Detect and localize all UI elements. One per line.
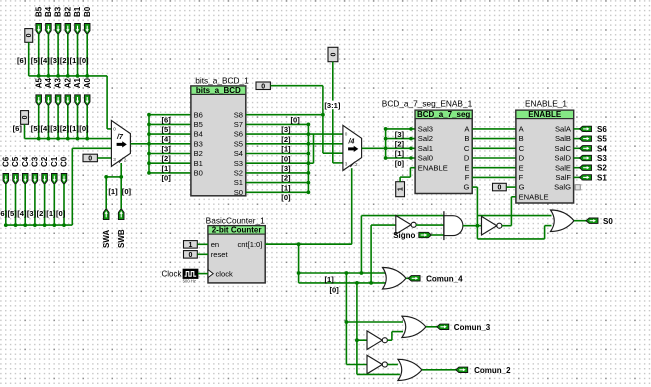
constant 0 (reset) xyxy=(184,251,198,259)
svg-text:/4: /4 xyxy=(348,139,355,146)
svg-text:A5: A5 xyxy=(34,78,43,89)
svg-text:2: 2 xyxy=(124,158,127,163)
wire B5 vertical xyxy=(38,34,40,76)
svg-text:B4: B4 xyxy=(44,6,53,17)
svg-text:[0]: [0] xyxy=(281,154,291,163)
svg-text:[3]: [3] xyxy=(50,56,60,65)
wire A bus horizontal xyxy=(25,138,112,140)
svg-text:B4: B4 xyxy=(194,130,203,139)
svg-text:B3: B3 xyxy=(54,6,63,17)
svg-text:G: G xyxy=(463,183,469,192)
wire select join xyxy=(106,176,121,178)
or gate O4 (Comun_2) xyxy=(398,359,422,380)
svg-text:0: 0 xyxy=(26,33,33,37)
wire A0 vertical xyxy=(86,105,88,138)
wire B0 vertical xyxy=(86,34,88,76)
wire S2 xyxy=(246,172,309,174)
wire S4 xyxy=(246,153,309,155)
output pin Comun_2 xyxy=(456,367,468,372)
wire const0 right xyxy=(270,85,323,87)
wire segment D xyxy=(472,157,516,159)
wire B1 vertical xyxy=(77,34,79,76)
svg-text:B3: B3 xyxy=(194,139,203,148)
svg-text:[5]: [5] xyxy=(31,124,41,133)
output pin S3 xyxy=(574,157,582,159)
svg-text:B: B xyxy=(464,134,469,143)
constant 0 vertical (mux2 in3 source) xyxy=(328,47,338,61)
svg-text:S1: S1 xyxy=(597,173,607,182)
junctions B bus xyxy=(37,74,41,78)
clock input triangle xyxy=(208,270,213,278)
wire top const down xyxy=(332,62,334,163)
svg-text:S2: S2 xyxy=(597,164,607,173)
svg-text:C0: C0 xyxy=(60,156,69,167)
wire SWB up xyxy=(120,177,122,209)
wire tap to AND top xyxy=(360,216,362,273)
svg-text:bits_a_BCD_1: bits_a_BCD_1 xyxy=(195,76,249,86)
wire Comun3 out xyxy=(426,326,438,328)
svg-text:[2]: [2] xyxy=(281,174,291,183)
wire C4 vertical xyxy=(24,184,26,225)
junction SWA xyxy=(104,175,108,179)
wire tap to Comun3 OR / NOT2 xyxy=(345,273,347,365)
wire C5 vertical xyxy=(15,184,17,225)
svg-text:[6]: [6] xyxy=(162,115,172,124)
svg-text:SalB: SalB xyxy=(555,134,571,143)
svg-text:SalF: SalF xyxy=(555,173,571,182)
svg-text:[3]: [3] xyxy=(27,209,37,218)
constant 0 (S8 extra bit) xyxy=(256,82,270,90)
wire Signo pin to AND xyxy=(432,234,444,236)
wire const to mux1 in3 xyxy=(97,157,112,159)
input pin SWB xyxy=(118,209,124,220)
svg-text:[1]: [1] xyxy=(70,56,80,65)
junction cnt xyxy=(297,242,301,246)
svg-text:ENABLE: ENABLE xyxy=(519,192,549,201)
wire constA to A bus xyxy=(24,124,26,138)
svg-text:[3]: [3] xyxy=(281,125,291,134)
wire reset xyxy=(197,253,208,255)
svg-text:0: 0 xyxy=(330,52,337,56)
wire tap to NOT3 / OR2 bottom xyxy=(356,283,358,375)
wire A1 vertical xyxy=(77,105,79,138)
svg-text:S3: S3 xyxy=(234,159,243,168)
wire Comun4 out xyxy=(406,277,409,279)
svg-text:[2]: [2] xyxy=(395,140,405,149)
wire NOT2 input xyxy=(346,364,367,366)
wire NOT4 out up to ENABLE xyxy=(502,225,512,227)
wire segment C xyxy=(472,147,516,149)
wire AND output xyxy=(463,225,482,227)
svg-text:1: 1 xyxy=(398,187,405,191)
svg-text:C4: C4 xyxy=(21,156,30,167)
svg-text:SalA: SalA xyxy=(555,125,572,134)
svg-text:D: D xyxy=(464,154,470,163)
svg-text:[0]: [0] xyxy=(79,124,89,133)
svg-text:A1: A1 xyxy=(73,78,82,89)
svg-text:Sal1: Sal1 xyxy=(418,144,433,153)
wire segment F xyxy=(472,176,516,178)
svg-text:[0]: [0] xyxy=(122,187,132,196)
output pin S5 xyxy=(574,138,582,140)
svg-text:S0: S0 xyxy=(603,217,613,226)
output pin Signo xyxy=(419,232,432,237)
svg-text:B0: B0 xyxy=(83,6,92,17)
svg-text:S6: S6 xyxy=(597,125,607,134)
svg-text:[4]: [4] xyxy=(41,56,51,65)
svg-text:Signo: Signo xyxy=(393,231,415,240)
svg-text:[1]: [1] xyxy=(325,275,335,284)
svg-text:[3:1]: [3:1] xyxy=(324,101,341,110)
junction AND out xyxy=(476,224,480,228)
svg-text:C: C xyxy=(519,144,525,153)
svg-text:Comun_4: Comun_4 xyxy=(426,274,463,283)
constant 1 vertical (BCD enable) xyxy=(396,182,405,197)
svg-text:[5]: [5] xyxy=(162,125,172,134)
wire V1 to mux2 in2 xyxy=(323,152,343,154)
svg-text:[3]: [3] xyxy=(281,164,291,173)
junction tap OR3 xyxy=(345,320,349,324)
svg-text:S3: S3 xyxy=(597,154,607,163)
output pin S2 xyxy=(574,167,582,169)
wire to mux2 in3 xyxy=(333,162,343,164)
junction SWB xyxy=(119,175,123,179)
svg-text:A0: A0 xyxy=(83,78,92,89)
svg-text:C5: C5 xyxy=(11,156,20,167)
wire NOT2 out xyxy=(387,364,398,366)
svg-text:[3]: [3] xyxy=(162,144,172,153)
svg-text:0: 0 xyxy=(22,115,29,119)
wire NOT3 out jog xyxy=(387,339,392,341)
wire B4 vertical xyxy=(47,34,49,76)
svg-text:B: B xyxy=(519,134,524,143)
wire S6 (mux2 in0) xyxy=(246,133,343,135)
svg-text:BasicCounter_1: BasicCounter_1 xyxy=(206,216,265,226)
svg-text:[1]: [1] xyxy=(46,209,56,218)
svg-text:[1]: [1] xyxy=(281,145,291,154)
wire const1 to ENABLE xyxy=(399,177,401,182)
svg-text:[0]: [0] xyxy=(291,116,301,125)
svg-text:[1]: [1] xyxy=(70,124,80,133)
junctions A bus xyxy=(37,137,41,141)
wire NOT3 input xyxy=(357,339,367,341)
inverter NOT1 Signo xyxy=(396,216,411,235)
wire tap to NOT1 input xyxy=(370,225,372,283)
svg-text:Sal0: Sal0 xyxy=(418,154,433,163)
wire mux2 select xyxy=(351,168,353,244)
svg-text:S1: S1 xyxy=(234,178,243,187)
inverter NOT2 xyxy=(367,355,382,374)
constant 0 (mux1 in3) xyxy=(83,154,97,162)
svg-text:[0]: [0] xyxy=(281,193,291,202)
mux M2 (2-to-1, 4-bit) xyxy=(343,125,362,170)
svg-text:[3]: [3] xyxy=(395,130,405,139)
svg-text:B6: B6 xyxy=(194,110,203,119)
wire A2 vertical xyxy=(67,105,69,138)
svg-text:S5: S5 xyxy=(234,139,243,148)
svg-text:C1: C1 xyxy=(50,156,59,167)
wire OR3 top input xyxy=(346,321,403,323)
wire G output xyxy=(472,186,477,188)
svg-text:ENABLE: ENABLE xyxy=(418,163,448,172)
svg-text:[0]: [0] xyxy=(79,56,89,65)
wire row cnt0 xyxy=(299,282,388,284)
label [3:1] xyxy=(324,101,341,110)
svg-text:SWB: SWB xyxy=(117,229,126,248)
svg-text:[6]: [6] xyxy=(17,56,27,65)
inverter NOT4 (after AND) xyxy=(482,216,497,235)
wire B bus horizontal xyxy=(29,75,107,77)
junction cnt1 xyxy=(297,271,301,275)
and gate A1 xyxy=(444,216,463,236)
wire branch Sal3 xyxy=(386,128,416,130)
output pin Comun_3 xyxy=(437,324,449,329)
svg-text:S6: S6 xyxy=(234,130,243,139)
svg-text:S4: S4 xyxy=(597,144,607,153)
svg-text:[6]: [6] xyxy=(13,124,23,133)
output pin S0 xyxy=(586,218,598,223)
svg-text:Comun_3: Comun_3 xyxy=(454,323,491,332)
svg-text:[1]: [1] xyxy=(108,187,118,196)
wire C bus horizontal xyxy=(6,224,73,226)
wire A5 vertical xyxy=(38,105,40,138)
svg-text:bits_a_BCD: bits_a_BCD xyxy=(196,86,241,95)
wire column bits_a_BCD inputs xyxy=(148,115,150,173)
wire NOT1 out to AND xyxy=(416,224,444,226)
junction nubs BCD inputs xyxy=(409,127,413,131)
wire branch B4 xyxy=(149,133,191,135)
svg-text:[2]: [2] xyxy=(60,124,70,133)
svg-text:BCD_a_7_seg_ENAB_1: BCD_a_7_seg_ENAB_1 xyxy=(382,98,473,108)
wire B2 vertical xyxy=(67,34,69,76)
wire branch B0 xyxy=(149,172,191,174)
svg-text:[4]: [4] xyxy=(162,135,172,144)
svg-text:Clock: Clock xyxy=(162,269,183,278)
wire C3 vertical xyxy=(34,184,36,225)
svg-text:500 Hz: 500 Hz xyxy=(183,279,196,284)
or gate O2 (Comun_4) xyxy=(383,268,407,290)
junctions C bus xyxy=(4,223,8,227)
wire column BCD inputs xyxy=(385,129,387,158)
svg-text:Sal2: Sal2 xyxy=(418,134,433,143)
mux M1 (4-to-1, 7-bit) xyxy=(111,121,130,167)
svg-text:clock: clock xyxy=(216,270,234,279)
wire AND top input xyxy=(361,215,444,217)
svg-text:[0]: [0] xyxy=(395,159,405,168)
wire segment E xyxy=(472,167,516,169)
wire en xyxy=(197,243,208,245)
input pin SWA xyxy=(103,209,109,220)
wire C bus to mux xyxy=(71,148,73,225)
svg-text:[4]: [4] xyxy=(41,124,51,133)
wire S5 (mux2 in1) xyxy=(246,143,343,145)
svg-text:[2]: [2] xyxy=(60,56,70,65)
or gate O1 (S0) xyxy=(551,210,575,232)
wire V1 vertical xyxy=(322,86,324,154)
wire branch B1 xyxy=(149,162,191,164)
svg-text:[1]: [1] xyxy=(281,183,291,192)
wire C1 vertical xyxy=(53,184,55,225)
svg-text:SWA: SWA xyxy=(102,230,111,248)
constant 0 (A bit 6) xyxy=(21,111,29,125)
output pin S1 xyxy=(574,176,582,178)
wire branch B5 xyxy=(149,123,191,125)
svg-text:2-bit Counter: 2-bit Counter xyxy=(212,226,262,235)
svg-text:0: 0 xyxy=(113,127,116,132)
svg-text:A2: A2 xyxy=(63,78,72,89)
wire branch B3 xyxy=(149,143,191,145)
svg-text:2: 2 xyxy=(355,162,358,167)
svg-text:C3: C3 xyxy=(31,156,40,167)
wire segment A xyxy=(472,128,516,130)
wire column A xyxy=(307,124,309,192)
wire S3 xyxy=(246,162,309,164)
svg-text:en: en xyxy=(211,240,219,249)
svg-text:[1]: [1] xyxy=(162,164,172,173)
svg-text:[5]: [5] xyxy=(8,209,18,218)
svg-text:0: 0 xyxy=(497,185,501,192)
svg-text:B2: B2 xyxy=(194,149,203,158)
wire branch Sal0 xyxy=(386,157,416,159)
wire segment B xyxy=(472,138,516,140)
svg-text:ENABLE_1: ENABLE_1 xyxy=(525,98,567,108)
svg-text:SalC: SalC xyxy=(555,144,572,153)
or gate O3 (Comun_3) xyxy=(402,316,426,337)
svg-text:0: 0 xyxy=(345,132,348,137)
wire const0 to B bus xyxy=(28,42,30,76)
svg-text:3: 3 xyxy=(113,157,116,162)
svg-text:S7: S7 xyxy=(234,120,243,129)
svg-text:[0]: [0] xyxy=(56,209,66,218)
svg-text:[2]: [2] xyxy=(281,135,291,144)
svg-text:[5]: [5] xyxy=(31,56,41,65)
wire aux vertical S6-S3 xyxy=(313,134,315,163)
svg-text:S0: S0 xyxy=(234,188,243,197)
constant 0 (B bit 6) xyxy=(25,29,33,43)
svg-text:0: 0 xyxy=(261,83,265,90)
wire Comun2 out xyxy=(422,369,457,371)
svg-text:[2]: [2] xyxy=(162,154,172,163)
svg-text:BCD_a_7_seg: BCD_a_7_seg xyxy=(417,110,470,119)
svg-text:B0: B0 xyxy=(194,169,203,178)
svg-text:C: C xyxy=(464,144,470,153)
wire C2 vertical xyxy=(44,184,46,225)
wire OR2 bottom input xyxy=(357,373,400,375)
svg-text:B1: B1 xyxy=(73,6,82,17)
wire mux2 output xyxy=(362,147,386,149)
wire branch B2 xyxy=(149,153,191,155)
svg-text:cnt[1:0]: cnt[1:0] xyxy=(237,240,262,249)
svg-text:B5: B5 xyxy=(34,6,43,17)
wire B bus to mux xyxy=(106,76,108,129)
svg-text:F: F xyxy=(519,173,524,182)
svg-text:[1]: [1] xyxy=(395,149,405,158)
wire C0 vertical xyxy=(63,184,65,225)
wire S8 xyxy=(246,114,323,116)
svg-text:SalE: SalE xyxy=(555,163,571,172)
svg-text:1: 1 xyxy=(188,242,192,249)
svg-text:SalG: SalG xyxy=(554,183,571,192)
wire S1 xyxy=(246,182,309,184)
wire B3 vertical xyxy=(57,34,59,76)
svg-text:[4]: [4] xyxy=(17,209,27,218)
svg-text:G: G xyxy=(519,183,525,192)
wire clock xyxy=(198,273,208,275)
stub SalG unconnected xyxy=(575,185,580,190)
svg-text:/7: /7 xyxy=(116,134,124,141)
svg-text:[0]: [0] xyxy=(162,174,172,183)
wire select to mux1 xyxy=(120,163,122,177)
wire branch Sal2 xyxy=(386,138,416,140)
wire SWA up xyxy=(105,177,107,209)
svg-text:S2: S2 xyxy=(234,169,243,178)
output pin S4 xyxy=(574,147,582,149)
svg-text:Sal3: Sal3 xyxy=(418,125,433,134)
svg-text:C6: C6 xyxy=(1,156,10,167)
wire C6 vertical xyxy=(5,184,7,225)
output pin Comun_4 xyxy=(408,276,420,281)
wire S0 out xyxy=(574,220,587,222)
svg-text:[2]: [2] xyxy=(37,209,47,218)
svg-text:3: 3 xyxy=(345,161,348,166)
wire const to G xyxy=(506,186,516,188)
wire S0 xyxy=(246,191,309,193)
svg-text:S8: S8 xyxy=(234,110,243,119)
wire cnt branch down xyxy=(298,244,300,283)
svg-text:[0]: [0] xyxy=(330,285,340,294)
svg-text:E: E xyxy=(464,163,469,172)
wire G branch to OR top xyxy=(477,215,551,217)
svg-text:B1: B1 xyxy=(194,159,203,168)
svg-text:S4: S4 xyxy=(234,149,243,158)
wire branch B6 xyxy=(149,114,191,116)
output pin S6 xyxy=(574,128,582,130)
svg-text:0: 0 xyxy=(188,252,192,259)
wire NOT1 input xyxy=(371,224,396,226)
svg-text:E: E xyxy=(519,163,524,172)
svg-text:[6]: [6] xyxy=(0,209,8,218)
wire A4 vertical xyxy=(47,105,49,138)
svg-text:B5: B5 xyxy=(194,120,203,129)
svg-text:0: 0 xyxy=(88,155,92,162)
wire cnt out xyxy=(265,243,352,245)
junction tap NOT3 xyxy=(355,338,359,342)
svg-text:SalD: SalD xyxy=(555,154,572,163)
svg-text:[3]: [3] xyxy=(50,124,60,133)
wire S7 xyxy=(246,123,309,125)
svg-text:Comun_2: Comun_2 xyxy=(474,366,511,375)
wire mux1 output xyxy=(130,143,149,145)
wire A3 vertical xyxy=(57,105,59,138)
svg-text:F: F xyxy=(465,173,470,182)
wire to OR bottom xyxy=(477,238,544,240)
inverter NOT3 xyxy=(367,331,382,350)
constant 1 (en) xyxy=(184,241,198,249)
svg-text:ENABLE: ENABLE xyxy=(528,110,562,119)
constant 0 (ENABLE_1 G input) xyxy=(493,183,507,191)
svg-text:A4: A4 xyxy=(44,78,53,89)
svg-text:A3: A3 xyxy=(54,78,63,89)
svg-text:C2: C2 xyxy=(40,156,49,167)
svg-text:B2: B2 xyxy=(63,6,72,17)
svg-text:S5: S5 xyxy=(597,135,607,144)
svg-text:reset: reset xyxy=(211,250,229,259)
wire row cnt1 xyxy=(299,272,388,274)
wire branch Sal1 xyxy=(386,147,416,149)
svg-text:D: D xyxy=(519,154,525,163)
